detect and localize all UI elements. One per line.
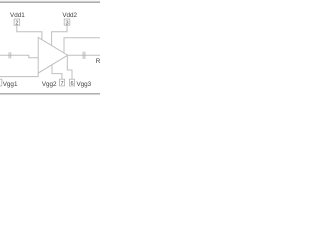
svg-text:Vdd1: Vdd1: [10, 12, 25, 19]
svg-text:7: 7: [61, 81, 64, 87]
svg-text:2: 2: [15, 20, 18, 26]
svg-text:6: 6: [70, 81, 73, 87]
svg-text:Vgg3: Vgg3: [76, 81, 91, 88]
svg-text:3: 3: [65, 20, 68, 26]
svg-text:Vgg1: Vgg1: [3, 81, 18, 88]
svg-text:Vdd2: Vdd2: [62, 12, 77, 19]
svg-text:R: R: [96, 58, 100, 65]
svg-text:Vgg2: Vgg2: [42, 81, 57, 88]
